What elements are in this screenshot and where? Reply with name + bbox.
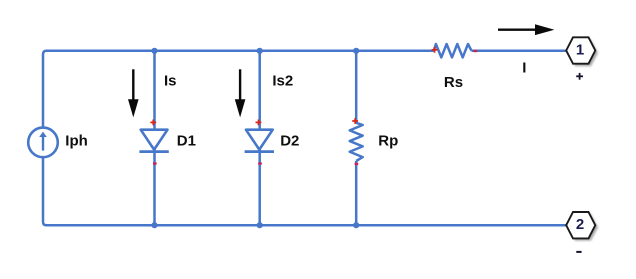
diode D2 <box>245 130 274 152</box>
wire top and left rail <box>43 51 434 128</box>
svg-text:Is2: Is2 <box>272 73 293 90</box>
node junction top Rp <box>353 48 359 54</box>
port 2 shadow <box>568 214 598 240</box>
svg-text:Is: Is <box>164 73 177 90</box>
node junction bottom D2 <box>257 222 263 228</box>
polarity minus Rp <box>355 163 359 165</box>
node junction bottom D1 <box>151 222 157 228</box>
port 2 <box>566 212 595 238</box>
polarity plus Rp <box>352 118 358 124</box>
current annotation arrow Is2 <box>235 69 246 117</box>
resistor Rp <box>350 123 363 161</box>
port 1 shadow <box>568 40 598 66</box>
node junction bottom Rp <box>353 222 359 228</box>
svg-text:D2: D2 <box>280 133 299 150</box>
svg-text:Iph: Iph <box>65 133 88 150</box>
polarity plus D1 <box>150 120 156 126</box>
port 2 minus sign <box>576 251 581 253</box>
svg-text:2: 2 <box>576 216 584 233</box>
polarity plus D2 <box>256 120 262 126</box>
svg-text:I: I <box>522 59 526 76</box>
wire diode D2 branch <box>258 51 261 226</box>
polarity minus D2 <box>258 162 262 164</box>
wire diode D1 branch <box>153 51 156 226</box>
wire Rs to port 1 <box>472 49 567 52</box>
wire bottom rail <box>43 157 566 225</box>
svg-text:Rp: Rp <box>378 133 398 150</box>
port 1 plus sign <box>576 73 583 80</box>
svg-text:Rs: Rs <box>444 74 463 91</box>
port 1 <box>566 37 595 63</box>
wire Rp branch <box>355 51 358 226</box>
polarity minus D1 <box>153 162 157 164</box>
svg-text:1: 1 <box>576 42 584 59</box>
node junction top D1 <box>151 48 157 54</box>
current annotation arrow I <box>498 24 554 35</box>
resistor Rs <box>434 44 472 57</box>
current annotation arrow Is <box>128 69 139 117</box>
current source Iph <box>28 128 58 158</box>
polarity minus Rs <box>473 50 477 52</box>
polarity plus Rs <box>432 47 438 53</box>
svg-text:D1: D1 <box>177 133 196 150</box>
node junction top D2 <box>257 48 263 54</box>
diode D1 <box>139 130 168 152</box>
